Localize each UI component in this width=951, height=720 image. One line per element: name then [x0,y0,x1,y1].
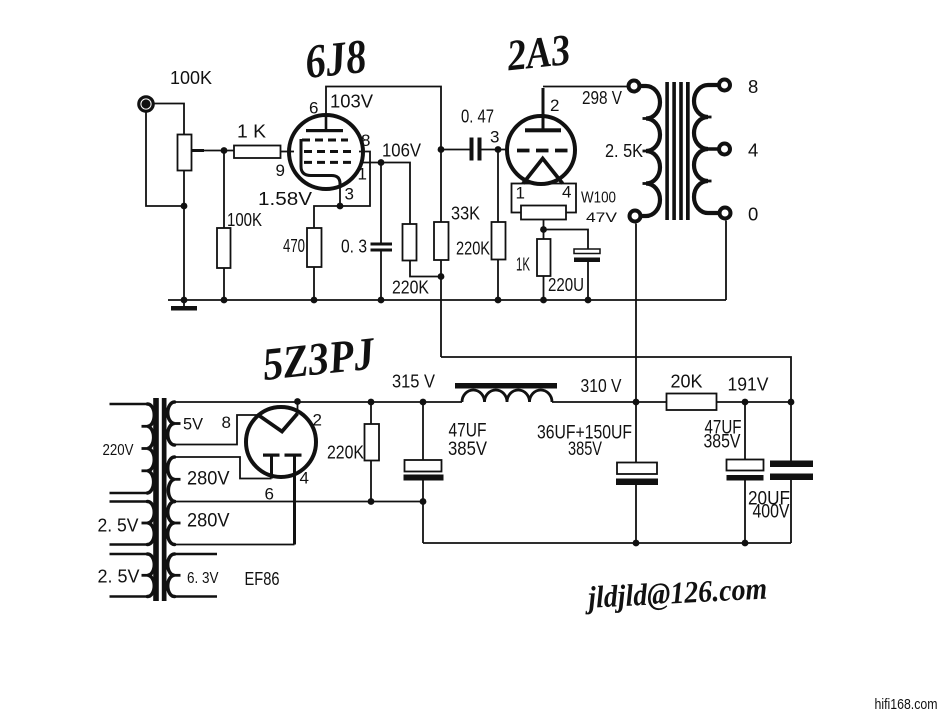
PT winding 280V first [168,457,175,502]
wire 6.3V top lead [175,553,218,556]
label 20UF 400V [748,489,790,523]
svg-text:280V: 280V [187,510,230,532]
OPT secondary terminal 0 [720,208,731,219]
wire 6J8 plate to B+ node (103V run) [326,87,441,358]
tick 220V [142,426,149,471]
capacitor 220U [574,249,600,262]
svg-text:106V: 106V [382,140,422,161]
wire wiper node to 220U cap [544,230,589,301]
svg-text:0. 47: 0. 47 [461,106,494,127]
svg-text:1: 1 [358,165,367,184]
svg-text:6J8: 6J8 [303,30,369,89]
junction bus at input ground [181,297,188,304]
wire 220V bottom lead [110,492,148,495]
junction bus at 470 [311,297,318,304]
wire jack sleeve down to ground node [146,112,184,207]
resistor 100K (grid leak) [217,228,231,268]
5Z3PJ left plate [263,454,280,479]
svg-text:6: 6 [309,99,318,118]
svg-text:8: 8 [748,76,758,97]
svg-text:100K: 100K [170,67,213,88]
6J8 cathode [301,139,340,188]
svg-text:2A3: 2A3 [504,25,573,80]
wire jack tip to pot top [153,104,184,135]
svg-text:hifi168.com: hifi168.com [875,696,938,713]
resistor 33K (plate load) [434,222,449,260]
OPT secondary terminal 8 [719,80,730,91]
resistor 1K (2A3 cathode) [537,239,551,276]
resistor 20K [667,394,717,411]
OPT primary terminal bottom [630,211,641,222]
tube 6J8 envelope [289,115,363,189]
svg-text:8: 8 [361,131,370,150]
B+ rail 315V [175,401,792,403]
capacitor 20UF 400V [770,461,813,544]
OPT primary cusp nubs [643,119,647,184]
junction return bus at cap2 [633,540,640,547]
junction cathode node [337,203,344,210]
wire cathode node to 470 resistor [314,206,340,300]
junction rail at cap3 [742,399,749,406]
svg-text:103V: 103V [330,91,374,112]
wire wiper node down to grid resistor [223,151,225,301]
wire grid node down through 220K [497,150,499,301]
svg-text:9: 9 [276,161,285,180]
tick 2.5V-2 [142,574,149,577]
junction plate node [438,146,445,153]
OPT secondary 4 tap stub [708,147,718,151]
junction return bus at cap3 [742,540,749,547]
wire OPT primary bottom down to 310V node [635,224,637,463]
resistor 1K (grid stopper) [234,146,281,159]
svg-text:220V: 220V [103,442,135,459]
svg-text:280V: 280V [187,468,230,490]
output transformer core [665,82,689,220]
svg-text:2. 5K: 2. 5K [605,140,644,161]
wire 2.5V-1 top lead [110,500,148,503]
svg-text:220K: 220K [456,238,491,259]
wire wiper down through 1K to bus [543,220,545,301]
svg-text:4: 4 [562,183,571,202]
junction bus at 100K [221,297,228,304]
svg-text:3: 3 [490,128,499,147]
junction rail at pin 2 [294,398,301,405]
svg-text:400V: 400V [753,502,790,523]
wire 280V-1 top lead to left plate [175,457,272,479]
2A3 filament [523,159,563,184]
resistor 220K (lower) [403,224,417,261]
wire 5V bottom lead to pin 8 [175,415,260,445]
junction 191V node [788,399,795,406]
PT winding 6.3V [168,554,175,597]
junction center tap at cap1 [420,498,427,505]
wire 220V top lead [110,403,148,406]
label 47UF 385V second [704,418,742,453]
svg-text:33K: 33K [451,203,481,224]
junction bus at 1K cathode [540,297,547,304]
svg-text:1: 1 [516,184,525,203]
svg-text:298 V: 298 V [582,87,623,108]
wire HV center tap to filter ground [175,501,424,503]
wire 2A3 plate to OPT primary top [543,86,627,88]
PT primary winding 220V [148,404,155,493]
svg-text:3: 3 [345,185,354,204]
ground symbol [171,300,197,311]
tick 5V [174,422,181,425]
wire pin 3 cathode lead [339,187,341,207]
wire 1K to 6J8 grid [281,151,295,153]
wire node to 220K feedback resistor [381,163,441,277]
wire 6.3V bottom lead [175,595,218,598]
label 36UF+150UF 385V [537,423,632,461]
junction bus at 0.3 cap [378,297,385,304]
5Z3PJ right plate [285,454,302,545]
svg-text:4: 4 [748,140,758,161]
feedback line from 191V to 33K [441,357,791,461]
wire cap to 2A3 grid node [482,149,508,151]
capacitor 0.3 [371,243,393,252]
OPT primary terminal top [629,81,640,92]
power transformer core [153,398,166,601]
svg-text:191V: 191V [728,374,770,395]
svg-text:6. 3V: 6. 3V [187,570,219,587]
svg-text:385V: 385V [448,439,487,460]
junction jack-ground [181,203,188,210]
OPT secondary cusp nubs [708,117,712,181]
2A3 grid dashes [517,149,569,153]
svg-text:100K: 100K [227,209,263,230]
svg-text:20K: 20K [671,371,704,392]
OPT secondary winding [694,85,719,213]
wire pin 8 to cathode node [340,152,370,207]
tick 280V-1 [174,478,181,481]
svg-text:385V: 385V [704,432,741,453]
capacitor 0.47 (coupling) [470,138,482,161]
tick 280V-2 [174,522,181,525]
svg-text:1.58V: 1.58V [258,188,313,209]
wire pot wiper to 1K [192,150,235,152]
svg-text:315 V: 315 V [392,371,436,392]
wire plate node to coupling cap [441,149,470,151]
svg-text:8: 8 [222,413,231,432]
hum pot loop W100 [512,184,577,213]
capacitor 47UF 385V second [727,402,764,543]
junction 310V node [633,399,640,406]
svg-text:EF86: EF86 [245,568,280,589]
upper ground bus [168,299,726,301]
svg-text:470: 470 [283,235,305,256]
capacitor 36UF+150UF 385V [616,463,658,544]
PT winding 2.5V second [148,554,155,597]
svg-text:1K: 1K [516,254,530,275]
tick 2.5V-1 [142,522,149,525]
wire pin 2 to B+ node [297,402,299,414]
bleeder 220K [365,402,380,502]
wire 280V-2 bottom lead to pin 4 [175,544,295,546]
svg-text:2. 5V: 2. 5V [98,515,140,536]
filter choke [455,383,557,402]
svg-text:220K: 220K [327,442,365,463]
svg-text:0: 0 [748,204,758,225]
6J8 grid row 3 [304,161,351,164]
6J8 grid row 1 [302,139,348,142]
svg-text:385V: 385V [568,439,602,460]
svg-text:2: 2 [313,411,322,430]
resistor 470 (cathode) [307,228,322,267]
junction rail at cap1 [420,399,427,406]
wire 2.5V-1 bottom lead [110,543,148,546]
resistor 220K (2A3 grid) [492,222,506,260]
svg-text:220U: 220U [548,274,584,295]
svg-text:310 V: 310 V [581,375,623,396]
wire 2.5V-2 top lead [110,553,148,556]
wire 2.5V-2 bottom lead [110,595,148,598]
tick 6.3V [174,574,181,577]
potentiometer 100K (volume) [178,135,192,171]
junction rail at bleeder [368,399,375,406]
wire pot bottom to ground bus [183,171,185,301]
junction center tap at bleeder [368,498,375,505]
junction bus at 220K grid [495,297,502,304]
input jack J1 [139,97,153,111]
wire node down to 0.3 cap and bus [380,163,382,301]
svg-text:W100: W100 [581,190,616,207]
2A3 plate [525,88,561,132]
svg-text:1 K: 1 K [237,121,267,142]
svg-text:0. 3: 0. 3 [341,236,367,257]
OPT primary winding 2.5K [640,86,660,216]
junction wiper node [540,226,547,233]
wire pin 1 to node 106V [360,162,381,164]
svg-text:2: 2 [550,96,559,115]
capacitor 47UF 385V first [404,402,444,543]
tube 2A3 envelope [507,116,575,184]
PT winding 280V second [168,502,175,545]
svg-text:6: 6 [265,485,274,504]
hum pot body W100 [521,206,566,220]
label 47UF 385V first [448,421,487,461]
junction 2A3 grid node [495,146,502,153]
tube 5Z3PJ envelope [246,407,316,477]
junction wiper node [221,147,228,154]
6J8 plate [306,114,343,132]
svg-text:4: 4 [300,469,309,488]
wire OPT secondary 0 to ground bus [725,221,727,301]
junction node 106V [378,159,385,166]
junction 33K bottom node [438,273,445,280]
svg-text:47V: 47V [586,209,618,225]
5Z3PJ filament [259,414,298,432]
OPT secondary terminal 4 [719,144,730,155]
svg-text:2. 5V: 2. 5V [98,566,141,587]
svg-text:220K: 220K [392,277,430,298]
PT winding 5V [168,402,175,445]
PSU return bus [423,542,791,544]
junction bus at 220U [585,297,592,304]
svg-text:5V: 5V [183,415,204,434]
PT winding 2.5V first [148,502,155,545]
6J8 grid row 2 [304,150,351,153]
